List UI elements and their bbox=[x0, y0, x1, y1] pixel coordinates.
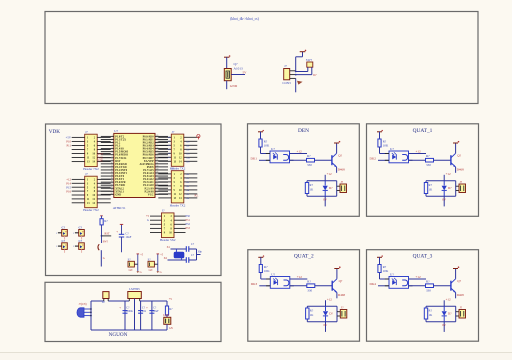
capacitor C1 lower mark bbox=[64, 236, 66, 239]
resistor R3b (base) bbox=[426, 158, 434, 162]
wire opto pin3 to R4b bbox=[290, 285, 307, 287]
load loop wiring bbox=[307, 305, 337, 307]
capacitor C3 body bbox=[62, 243, 68, 250]
capacitor C2 lower mark bbox=[81, 236, 83, 239]
wire opto pin4 to net +12 (red label) bbox=[409, 153, 427, 155]
svg-text:21: 21 bbox=[156, 193, 158, 195]
RST tap wire bbox=[102, 235, 112, 237]
resistor R2 (LED series) bbox=[166, 301, 168, 306]
svg-text:13: 13 bbox=[111, 171, 113, 173]
svg-text:DK1: DK1 bbox=[251, 157, 258, 161]
svg-text:+: + bbox=[146, 306, 148, 310]
svg-text:P30: P30 bbox=[186, 215, 191, 218]
opto U3 internal phototransistor bbox=[402, 155, 407, 161]
svg-text:6: 6 bbox=[112, 150, 113, 152]
NGUON sheet box bbox=[45, 282, 221, 341]
wire net to opto pin2 bbox=[378, 159, 389, 161]
svg-text:+: + bbox=[116, 230, 118, 234]
svg-text:QUAT_3: QUAT_3 bbox=[413, 254, 433, 260]
svg-text:10K: 10K bbox=[264, 269, 270, 273]
wire opto pin3 to R5b bbox=[409, 285, 426, 287]
wire J10 pin1 up to VCC bbox=[295, 57, 297, 71]
svg-text:+12: +12 bbox=[416, 149, 422, 153]
svg-text:17: 17 bbox=[111, 184, 113, 186]
svg-text:U?: U? bbox=[390, 147, 394, 151]
svg-text:30p: 30p bbox=[198, 250, 203, 254]
svg-text:P2.: P2. bbox=[195, 193, 199, 197]
svg-text:5V: 5V bbox=[243, 70, 248, 74]
wire loop bottom to 0V bbox=[324, 196, 326, 206]
regulator U2 (7805) body bbox=[128, 292, 142, 299]
svg-text:35: 35 bbox=[156, 150, 158, 152]
svg-text:39: 39 bbox=[156, 138, 158, 140]
wire VCC to Q10 bbox=[226, 57, 228, 68]
svg-text:Header 7X2: Header 7X2 bbox=[83, 208, 99, 212]
capacitor C1 body bbox=[62, 230, 68, 237]
svg-text:3: 3 bbox=[112, 141, 113, 143]
svg-text:18: 18 bbox=[111, 187, 113, 189]
connector J4 pin stubs bbox=[158, 173, 171, 175]
connector J10 pin stubs bbox=[290, 70, 296, 72]
wire Q4 collector to VCC bar bbox=[336, 269, 338, 279]
wire SW1 to ground bbox=[100, 250, 102, 266]
connector J5 stubs bbox=[456, 311, 459, 313]
button S2 body bbox=[128, 261, 134, 267]
svg-text:D468: D468 bbox=[457, 167, 464, 171]
opto-isolator U2 body bbox=[270, 151, 290, 163]
svg-text:CON3: CON3 bbox=[282, 81, 291, 85]
capacitor C6 (30p) bbox=[185, 246, 187, 252]
VDK sheet box bbox=[46, 124, 222, 276]
diode D2 (flyback) bbox=[324, 181, 326, 186]
wire opto pin3 to R3b bbox=[409, 159, 426, 161]
svg-text:8: 8 bbox=[112, 156, 113, 158]
svg-text:G: G bbox=[140, 271, 142, 274]
svg-text:16: 16 bbox=[111, 181, 113, 183]
svg-text:GN: GN bbox=[169, 327, 173, 330]
wire crystal caps join bbox=[196, 249, 198, 260]
wire opto pin3 to R2b bbox=[290, 159, 307, 161]
svg-text:G: G bbox=[103, 257, 105, 260]
button S3 wire to rails bbox=[154, 263, 157, 265]
opto U2 internal phototransistor bbox=[283, 155, 288, 161]
power bar VCC (top of Q10) bbox=[224, 56, 229, 58]
load loop wiring bbox=[426, 305, 456, 307]
svg-text:Header 7X2: Header 7X2 bbox=[170, 203, 186, 207]
connector J10 (3-pin) body bbox=[284, 69, 290, 80]
transistor Q5 (NPN) bbox=[450, 281, 452, 291]
svg-text:330: 330 bbox=[426, 163, 431, 167]
svg-text:1: 1 bbox=[56, 246, 57, 248]
load loop wiring bbox=[307, 180, 337, 182]
wire +12 stub into loop bbox=[443, 300, 445, 306]
svg-text:29: 29 bbox=[156, 168, 158, 170]
opto U5 internal phototransistor bbox=[402, 280, 407, 286]
diode D3 (flyback) bbox=[443, 181, 445, 186]
button S2 VCC bar bbox=[137, 253, 140, 255]
svg-text:38: 38 bbox=[156, 141, 158, 143]
svg-text:36: 36 bbox=[156, 147, 158, 149]
svg-text:Q?: Q? bbox=[457, 154, 461, 158]
microcontroller U1 body bbox=[114, 133, 155, 197]
wire Q10 base to net P0 bbox=[231, 74, 245, 76]
wire VCC to R4a bbox=[260, 257, 262, 264]
connector J2 (output) body bbox=[340, 184, 347, 193]
wire R5a to opto pin1 bbox=[379, 273, 381, 280]
svg-text:D?: D? bbox=[329, 312, 333, 316]
opto U4 internal phototransistor bbox=[284, 280, 289, 286]
wire Q10 emitter down bbox=[226, 81, 228, 90]
svg-text:D468: D468 bbox=[457, 293, 464, 297]
svg-text:40: 40 bbox=[156, 135, 158, 137]
capacitor C3 stub bbox=[58, 245, 62, 247]
svg-text:P16: P16 bbox=[66, 190, 71, 194]
transistor Q2 (NPN) bbox=[331, 155, 333, 165]
svg-text:23: 23 bbox=[156, 187, 158, 189]
svg-text:37: 37 bbox=[156, 144, 158, 146]
connector J1 body bbox=[85, 134, 98, 166]
svg-text:D?: D? bbox=[448, 312, 452, 316]
svg-text:X2: X2 bbox=[164, 257, 168, 260]
svg-text:DK3: DK3 bbox=[251, 282, 258, 286]
wire Q3 emitter down bbox=[455, 167, 457, 173]
svg-text:+12: +12 bbox=[327, 172, 332, 176]
resistor R5c (loop left) bbox=[424, 308, 427, 319]
wire VCC to R3a bbox=[379, 132, 381, 139]
svg-text:SW?: SW? bbox=[306, 58, 313, 62]
svg-text:RST: RST bbox=[105, 233, 110, 236]
svg-text:15: 15 bbox=[111, 178, 113, 180]
connector J3 (output) body bbox=[459, 184, 466, 193]
svg-text:30: 30 bbox=[156, 165, 158, 167]
svg-text:P32: P32 bbox=[186, 223, 191, 226]
svg-text:D?: D? bbox=[329, 186, 333, 190]
wire VCC to R5a bbox=[379, 257, 381, 264]
svg-text:X1: X1 bbox=[167, 246, 171, 249]
svg-text:+12: +12 bbox=[416, 275, 422, 279]
reset capacitor C5 (10uF) bbox=[121, 224, 123, 234]
wire J10 pin3 to ground bbox=[295, 78, 297, 92]
capacitor C4 lower mark bbox=[81, 249, 83, 252]
svg-text:GND: GND bbox=[115, 193, 121, 196]
svg-text:NGUON: NGUON bbox=[109, 332, 128, 338]
svg-text:R?: R? bbox=[426, 280, 430, 284]
svg-text:+12: +12 bbox=[446, 298, 451, 302]
power loop wiring bbox=[91, 300, 104, 302]
wire loop bottom to 0V bbox=[443, 322, 445, 332]
connector J4 body bbox=[171, 171, 184, 203]
svg-text:LED: LED bbox=[163, 313, 169, 317]
connector J1 pin stubs bbox=[72, 136, 85, 138]
wire R3b to Q3 base bbox=[434, 159, 451, 161]
resistor R3c (loop left) bbox=[424, 183, 427, 194]
button S3 VCC bar bbox=[157, 253, 160, 255]
svg-text:24: 24 bbox=[156, 184, 158, 186]
svg-text:P33: P33 bbox=[186, 227, 191, 230]
svg-text:VCC: VCC bbox=[148, 193, 154, 196]
svg-text:31: 31 bbox=[156, 162, 158, 164]
resistor R4a (10K pull-up) bbox=[259, 265, 262, 273]
svg-text:26: 26 bbox=[156, 178, 158, 180]
diode D1 (series) body bbox=[103, 292, 109, 299]
wire Q3 collector to VCC bar bbox=[455, 143, 457, 153]
wire R4a to opto pin1 bbox=[260, 273, 262, 280]
opto U4 pin stubs bbox=[266, 278, 270, 280]
wire Q4 emitter down bbox=[336, 293, 338, 299]
svg-text:DK4: DK4 bbox=[370, 282, 377, 286]
svg-text:1: 1 bbox=[112, 135, 113, 137]
svg-text:LM7805: LM7805 bbox=[129, 287, 140, 291]
resistor R3a (10K pull-up) bbox=[378, 139, 381, 147]
QUAT_2 sheet box bbox=[248, 250, 360, 342]
svg-text:33: 33 bbox=[156, 156, 158, 158]
connector J5 pin stubs bbox=[150, 215, 162, 217]
ground arrow symbol bbox=[297, 81, 303, 85]
svg-text:10: 10 bbox=[111, 162, 113, 164]
svg-text:2: 2 bbox=[112, 138, 113, 140]
wire opto pin4 to net +12 (red label) bbox=[290, 153, 308, 155]
svg-text:7: 7 bbox=[112, 153, 113, 155]
U1 pin stubs and labels bbox=[101, 135, 114, 137]
opto-isolator U3 body bbox=[389, 151, 409, 163]
capacitor C1 stub bbox=[58, 232, 62, 234]
svg-text:1000u: 1000u bbox=[126, 310, 133, 313]
svg-text:GND: GND bbox=[230, 84, 238, 88]
capacitor C9 (104) bbox=[140, 301, 142, 330]
svg-text:34: 34 bbox=[156, 153, 158, 155]
transistor Q4 (NPN) bbox=[331, 281, 333, 291]
reset resistor R1 (vertical) bbox=[100, 215, 103, 217]
load loop wiring bbox=[426, 180, 456, 182]
wire opto pin4 to net +12 (red label) bbox=[409, 278, 427, 280]
svg-text:R?: R? bbox=[426, 154, 430, 158]
svg-text:J?(CN): J?(CN) bbox=[79, 303, 87, 306]
regulator ground pin bbox=[134, 299, 136, 331]
svg-text:20: 20 bbox=[111, 193, 113, 195]
connector CN1 (power jack) bbox=[77, 308, 84, 317]
svg-text:G: G bbox=[160, 271, 162, 274]
svg-text:+5: +5 bbox=[169, 297, 173, 301]
QUAT_3 sheet box bbox=[367, 250, 479, 342]
svg-text:4: 4 bbox=[112, 144, 113, 146]
LED D2 body bbox=[166, 315, 168, 317]
wire VCC to R2a bbox=[260, 132, 262, 139]
DEN sheet box bbox=[248, 124, 360, 217]
wire Q2 collector to VCC bar bbox=[336, 143, 338, 153]
svg-text:10uF: 10uF bbox=[125, 235, 131, 239]
capacitor C4 body bbox=[79, 243, 85, 250]
wire +12 stub into loop bbox=[443, 175, 445, 181]
wire R1 to RST node bbox=[101, 225, 103, 243]
wire R3a to opto pin1 bbox=[379, 147, 381, 154]
svg-text:9: 9 bbox=[112, 159, 113, 161]
power bar VCC (R2a top) bbox=[258, 131, 263, 133]
crystal Y1 body bbox=[174, 252, 184, 258]
opto-isolator U5 body bbox=[389, 277, 409, 289]
svg-text:10K: 10K bbox=[383, 144, 389, 148]
svg-text:+12: +12 bbox=[297, 149, 303, 153]
transistor Q10 body bbox=[224, 69, 231, 81]
svg-text:U?: U? bbox=[271, 272, 275, 276]
connector J5 (output) body bbox=[459, 310, 466, 319]
svg-text:VDK: VDK bbox=[49, 129, 60, 135]
svg-text:12: 12 bbox=[111, 168, 113, 170]
svg-text:(khoi_dk->khoi_cs): (khoi_dk->khoi_cs) bbox=[230, 17, 259, 21]
svg-text:+12: +12 bbox=[297, 275, 303, 279]
power bar VCC (R4a top) bbox=[258, 256, 263, 258]
connector J5 body bbox=[162, 213, 175, 238]
svg-text:330: 330 bbox=[307, 289, 312, 293]
resistor R4b (base) bbox=[307, 284, 315, 288]
resistor R5a (10K pull-up) bbox=[378, 265, 381, 273]
wire loop bottom to 0V bbox=[325, 322, 327, 332]
power bar VCC (R3a top) bbox=[377, 131, 382, 133]
wire R2a to opto pin1 bbox=[260, 147, 262, 154]
svg-text:19: 19 bbox=[111, 190, 113, 192]
svg-text:P11: P11 bbox=[66, 144, 71, 148]
svg-text:DEN: DEN bbox=[298, 128, 309, 134]
svg-text:14: 14 bbox=[111, 174, 113, 176]
opto U3 internal LED bbox=[392, 155, 396, 160]
resistor R2a (10K pull-up) bbox=[259, 139, 262, 147]
svg-text:27: 27 bbox=[156, 174, 158, 176]
opto U5 pin stubs bbox=[385, 278, 389, 280]
svg-text:Q?: Q? bbox=[234, 62, 238, 66]
svg-text:Q?: Q? bbox=[339, 279, 343, 283]
no-connect mark right of J3 pin2 bbox=[197, 135, 200, 140]
connector J3 stubs bbox=[456, 185, 459, 187]
svg-text:Header 7X2: Header 7X2 bbox=[83, 167, 99, 171]
svg-text:GN: GN bbox=[129, 269, 133, 272]
resistor R2c (loop left) bbox=[305, 183, 308, 194]
opto U5 internal LED bbox=[392, 280, 396, 285]
capacitor C4 stub bbox=[75, 245, 79, 247]
button S3 body bbox=[148, 261, 154, 267]
jack pin stubs bbox=[84, 308, 90, 310]
connector J2 pin stubs bbox=[72, 178, 85, 180]
svg-text:QUAT_2: QUAT_2 bbox=[294, 254, 314, 260]
svg-text:G: G bbox=[147, 219, 149, 222]
capacitor C7 (30p) bbox=[185, 257, 187, 263]
capacitor C10 (10uF) bbox=[151, 301, 153, 330]
wire R4b to Q4 base bbox=[315, 285, 332, 287]
capacitor C2 stub bbox=[75, 232, 79, 234]
svg-text:AT89C51: AT89C51 bbox=[113, 206, 126, 210]
wire +12 stub into loop bbox=[324, 175, 326, 181]
button S2 wire to rails bbox=[134, 263, 137, 265]
svg-text:D?: D? bbox=[448, 186, 452, 190]
opto U2 internal LED bbox=[273, 155, 277, 160]
wire LED to ground rail bbox=[166, 324, 168, 330]
svg-text:U?: U? bbox=[271, 147, 275, 151]
power bar VCC (above J10) bbox=[300, 51, 306, 53]
wire switch pin A bbox=[307, 67, 309, 71]
resistor R2b (base) bbox=[307, 158, 315, 162]
svg-text:5: 5 bbox=[112, 147, 113, 149]
wire Q2 emitter down bbox=[336, 167, 338, 173]
connector J4 (output) body bbox=[340, 310, 347, 319]
wire switch pin B bbox=[311, 67, 313, 74]
svg-text:32: 32 bbox=[156, 159, 158, 161]
svg-text:GN: GN bbox=[149, 269, 153, 272]
svg-text:28: 28 bbox=[156, 171, 158, 173]
capacitor C3 lower mark bbox=[64, 249, 66, 252]
svg-text:11: 11 bbox=[111, 165, 113, 167]
svg-text:U?: U? bbox=[114, 129, 118, 133]
wire net to opto pin2 bbox=[378, 285, 389, 287]
wire loop bottom to 0V bbox=[443, 196, 445, 206]
regulator stubs bbox=[128, 299, 130, 302]
connector J3 body bbox=[171, 134, 184, 166]
reset button SW1 bbox=[98, 244, 99, 250]
top sheet box (power interface) bbox=[45, 12, 478, 104]
wire Q5 emitter down bbox=[455, 293, 457, 299]
wire +12 stub into loop bbox=[325, 300, 327, 306]
wire R2b to Q2 base bbox=[315, 159, 332, 161]
svg-text:10uF: 10uF bbox=[153, 310, 159, 313]
resistor R4c (loop left) bbox=[306, 308, 309, 319]
svg-text:PSE: PSE bbox=[98, 160, 103, 163]
svg-text:+12: +12 bbox=[327, 298, 332, 302]
power bar VCC (R5a top) bbox=[377, 256, 382, 258]
svg-text:22: 22 bbox=[156, 190, 158, 192]
resistor R5b (base) bbox=[426, 284, 434, 288]
wire C5 down bbox=[121, 237, 123, 252]
svg-text:25: 25 bbox=[156, 181, 158, 183]
svg-text:D468: D468 bbox=[338, 167, 345, 171]
svg-text:D468: D468 bbox=[338, 293, 345, 297]
wire R5b to Q5 base bbox=[434, 285, 451, 287]
diode D5 (flyback) bbox=[443, 306, 445, 311]
wire Q5 collector to VCC bar bbox=[455, 269, 457, 279]
opto-isolator U4 body bbox=[270, 277, 290, 289]
svg-text:10K: 10K bbox=[383, 269, 389, 273]
diode D1 stubs bbox=[103, 299, 105, 302]
svg-text:+12: +12 bbox=[446, 172, 451, 176]
svg-text:Header 5X2: Header 5X2 bbox=[160, 238, 176, 242]
wire net to opto pin2 bbox=[259, 159, 270, 161]
svg-text:U?: U? bbox=[390, 272, 394, 276]
button S3 ground tick bbox=[157, 271, 160, 273]
svg-text:SW?: SW? bbox=[103, 240, 109, 243]
svg-text:330: 330 bbox=[307, 163, 312, 167]
opto U2 pin stubs bbox=[266, 153, 270, 155]
svg-text:R?: R? bbox=[307, 154, 311, 158]
diode D4 (flyback) bbox=[325, 306, 327, 311]
svg-text:QUAT_1: QUAT_1 bbox=[413, 128, 433, 134]
transistor Q3 (NPN) bbox=[450, 155, 452, 165]
svg-text:10K: 10K bbox=[264, 144, 270, 148]
button S2 ground tick bbox=[137, 271, 140, 273]
capacitor C8 (1000uF) bbox=[124, 301, 126, 330]
svg-text:1: 1 bbox=[56, 233, 57, 235]
connector J2 stubs bbox=[337, 185, 340, 187]
svg-text:Q?: Q? bbox=[338, 154, 342, 158]
svg-text:1: 1 bbox=[73, 246, 74, 248]
svg-text:1: 1 bbox=[73, 233, 74, 235]
svg-text:Q?: Q? bbox=[457, 279, 461, 283]
svg-text:R?: R? bbox=[307, 280, 311, 284]
connector J2 body bbox=[85, 176, 98, 208]
QUAT_1 sheet box bbox=[367, 124, 479, 217]
svg-text:330: 330 bbox=[426, 289, 431, 293]
opto U4 internal LED bbox=[274, 280, 278, 285]
svg-text:DK2: DK2 bbox=[370, 157, 377, 161]
opto U3 pin stubs bbox=[385, 153, 389, 155]
svg-text:P31: P31 bbox=[186, 219, 191, 222]
connector J3 pin stubs bbox=[158, 136, 171, 138]
switch S10 body bbox=[307, 62, 313, 67]
